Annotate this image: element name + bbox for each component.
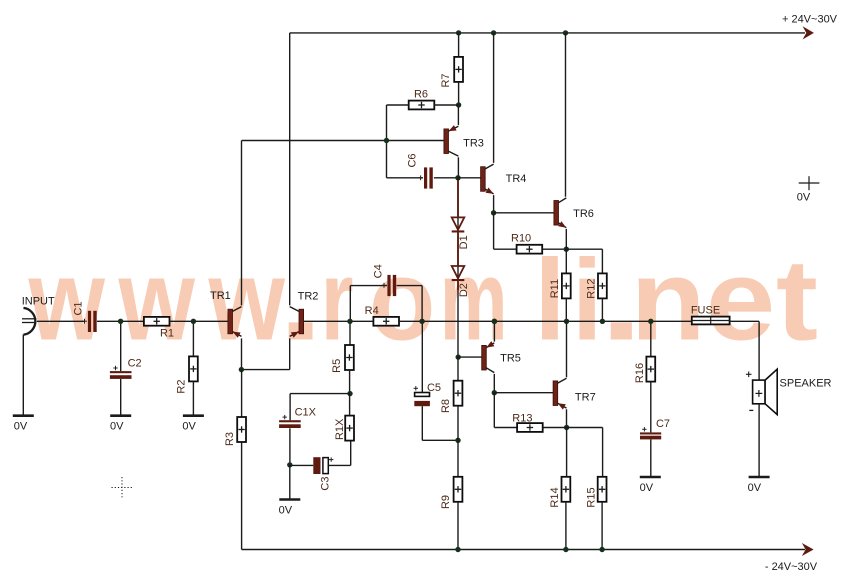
svg-text:R4: R4 (365, 305, 379, 317)
svg-text:l: l (534, 237, 566, 365)
svg-text:C7: C7 (656, 418, 670, 430)
svg-text:e: e (706, 237, 776, 365)
svg-text:+ 24V~30V: + 24V~30V (782, 13, 838, 25)
svg-text:R11: R11 (549, 279, 561, 298)
svg-text:TR7: TR7 (575, 391, 596, 403)
svg-text:0V: 0V (279, 504, 293, 516)
svg-text:C1X: C1X (295, 406, 317, 418)
svg-text:R14: R14 (549, 487, 561, 507)
svg-text:i: i (572, 237, 603, 365)
svg-text:TR2: TR2 (298, 291, 319, 303)
svg-text:D2: D2 (458, 283, 470, 297)
svg-text:INPUT: INPUT (22, 296, 55, 308)
svg-text:o: o (369, 237, 436, 365)
svg-text:0V: 0V (110, 421, 124, 433)
svg-text:SPEAKER: SPEAKER (780, 378, 832, 390)
svg-text:TR4: TR4 (506, 173, 527, 185)
svg-text:t: t (776, 237, 818, 365)
svg-text:TR5: TR5 (500, 353, 521, 365)
svg-text:FUSE: FUSE (691, 305, 720, 317)
svg-text:TR3: TR3 (463, 137, 484, 149)
svg-text:0V: 0V (797, 192, 811, 204)
svg-text:C2: C2 (128, 357, 142, 369)
svg-text:C3: C3 (319, 477, 331, 491)
svg-text:C4: C4 (372, 264, 384, 278)
svg-text:R3: R3 (224, 432, 236, 446)
svg-text:R7: R7 (440, 73, 452, 87)
svg-text:w: w (118, 237, 196, 365)
svg-text:R1: R1 (160, 327, 174, 339)
svg-text:n: n (630, 237, 705, 365)
svg-text:0V: 0V (748, 482, 762, 494)
svg-text:R1X: R1X (334, 418, 346, 440)
svg-text:R10: R10 (511, 232, 531, 244)
svg-text:0V: 0V (640, 482, 654, 494)
svg-text:R12: R12 (586, 279, 598, 299)
svg-text:R6: R6 (414, 88, 428, 100)
svg-text:R13: R13 (512, 413, 532, 425)
svg-text:C5: C5 (427, 382, 441, 394)
svg-text:C6: C6 (407, 153, 419, 167)
svg-text:TR6: TR6 (573, 208, 594, 220)
svg-text:R5: R5 (331, 359, 343, 373)
svg-text:0V: 0V (182, 421, 196, 433)
svg-text:C1: C1 (73, 301, 85, 315)
svg-text:R15: R15 (585, 487, 597, 507)
svg-text:m: m (440, 237, 508, 365)
svg-text:0V: 0V (14, 421, 28, 433)
svg-text:- 24V~30V: - 24V~30V (765, 561, 818, 573)
svg-text:R2: R2 (175, 380, 187, 394)
svg-text:D1: D1 (458, 235, 470, 249)
svg-text:R16: R16 (634, 363, 646, 383)
svg-text:R8: R8 (440, 399, 452, 413)
svg-text:R9: R9 (440, 495, 452, 509)
svg-text:TR1: TR1 (210, 290, 231, 302)
